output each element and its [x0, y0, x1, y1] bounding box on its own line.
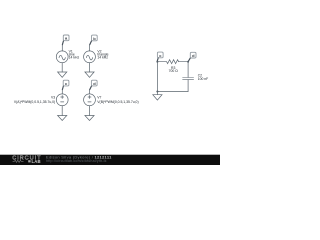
node flag d (above V7) — [90, 80, 97, 89]
junction top-right — [187, 61, 189, 63]
resistor R3 — [167, 60, 179, 64]
wire right branch upper — [187, 62, 189, 78]
node c letter — [65, 81, 68, 86]
voltage source V2 — [84, 51, 96, 63]
wire bottom — [157, 91, 188, 93]
wire V2 top — [89, 45, 91, 51]
V7 labels — [97, 95, 138, 103]
wire V1 bottom — [61, 63, 63, 72]
node b letter — [93, 36, 96, 41]
capacitor C2 — [183, 78, 194, 80]
node flag c (left of R3) — [157, 52, 163, 61]
ground (below V3) — [58, 116, 67, 121]
wire left branch — [156, 62, 158, 92]
ground (below V1) — [58, 72, 67, 77]
ground stub — [156, 92, 158, 95]
svg-text:700 Ω: 700 Ω — [169, 69, 179, 73]
behavioral source V7 — [84, 94, 96, 106]
wire V3 top — [61, 90, 63, 94]
ground (below V7) — [85, 116, 94, 121]
svg-text:14 kHz: 14 kHz — [69, 56, 80, 60]
svg-text:14 kHz: 14 kHz — [97, 56, 108, 60]
voltage source V1 — [56, 51, 68, 63]
svg-text:V7: V7 — [97, 95, 101, 99]
svg-text:V(B)*PWM(0,0.5,1,35.7u,0): V(B)*PWM(0,0.5,1,35.7u,0) — [97, 100, 138, 104]
wire top-left to resistor — [157, 61, 166, 63]
C2 labels — [198, 73, 209, 80]
wire V7 top — [89, 90, 91, 94]
V3 labels — [14, 95, 55, 103]
svg-text:V(A)*PWM(0,0.5,1,35.7u,0): V(A)*PWM(0,0.5,1,35.7u,0) — [14, 100, 55, 104]
behavioral source V3 — [56, 94, 68, 106]
node flag b (above V2) — [90, 35, 98, 45]
svg-text:LAB: LAB — [32, 159, 41, 164]
node flag d (right of R3) — [188, 52, 196, 61]
CircuitLab logo: CIRCUIT — [12, 155, 41, 161]
junction top-left — [156, 61, 158, 63]
R3 labels — [169, 66, 179, 73]
svg-text:100 nF: 100 nF — [198, 77, 209, 81]
svg-text:http://circuitlab.com/c/kfuhal: http://circuitlab.com/c/kfuhal/ytb-lk — [46, 159, 107, 163]
node flag a (above V1) — [62, 35, 69, 45]
wire V2 bottom — [89, 63, 91, 72]
V1 labels — [69, 50, 80, 60]
caption line 1 — [46, 154, 112, 159]
wire V7 bottom — [89, 106, 91, 116]
ground (below V2) — [85, 72, 94, 77]
node letter c — [159, 53, 162, 58]
logo second line: wire-zigzag, box, LAB — [13, 159, 41, 164]
V2 labels — [97, 50, 108, 60]
node d letter — [93, 81, 96, 86]
wire right branch lower — [187, 80, 189, 92]
node letter d — [192, 53, 195, 58]
caption line 2 — [46, 159, 107, 163]
watermark bar — [0, 155, 220, 165]
junction bottom-left — [156, 90, 158, 92]
wire V1 top — [61, 45, 63, 51]
svg-text:V3: V3 — [51, 95, 55, 99]
wire V3 bottom — [61, 106, 63, 116]
wire resistor to top-right — [179, 61, 189, 63]
ground (right circuit) — [153, 95, 162, 100]
node a letter — [65, 36, 68, 41]
node flag c (above V3) — [62, 80, 69, 89]
